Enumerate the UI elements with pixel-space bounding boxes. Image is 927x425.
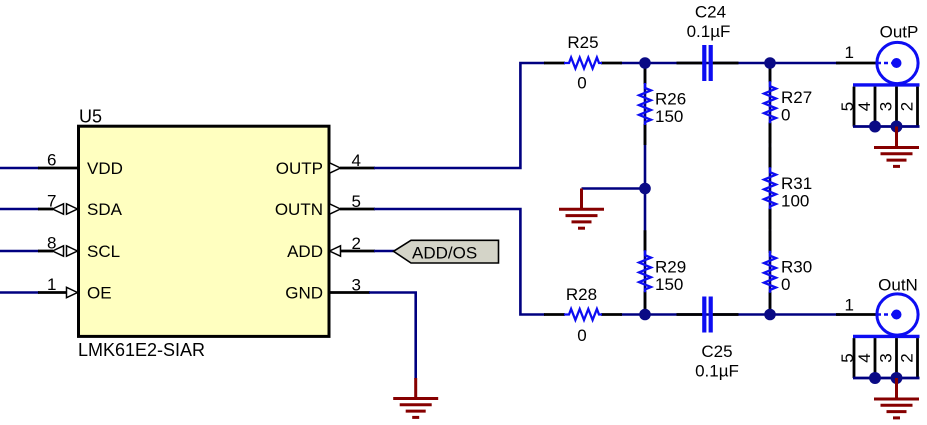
svg-text:2: 2 — [898, 353, 917, 362]
svg-text:OUTP: OUTP — [276, 159, 323, 178]
svg-text:R30: R30 — [781, 258, 812, 277]
svg-text:ADD/OS: ADD/OS — [412, 244, 477, 263]
svg-text:R31: R31 — [781, 174, 812, 193]
svg-text:4: 4 — [855, 102, 874, 111]
svg-text:0: 0 — [781, 106, 790, 125]
svg-text:VDD: VDD — [87, 159, 123, 178]
svg-text:1: 1 — [845, 296, 854, 315]
svg-text:0: 0 — [781, 275, 790, 294]
svg-text:SDA: SDA — [87, 200, 123, 219]
svg-text:LMK61E2-SIAR: LMK61E2-SIAR — [78, 340, 205, 360]
svg-text:2: 2 — [898, 102, 917, 111]
svg-text:1: 1 — [845, 43, 854, 62]
svg-text:100: 100 — [781, 192, 809, 211]
svg-text:OutP: OutP — [880, 23, 919, 42]
svg-text:0.1µF: 0.1µF — [695, 362, 739, 381]
svg-text:ADD: ADD — [287, 242, 323, 261]
svg-text:4: 4 — [855, 353, 874, 362]
svg-text:SCL: SCL — [87, 242, 120, 261]
svg-text:R28: R28 — [566, 285, 597, 304]
svg-text:150: 150 — [655, 275, 683, 294]
svg-text:OutN: OutN — [878, 276, 918, 295]
svg-text:OE: OE — [87, 284, 112, 303]
svg-text:3: 3 — [877, 353, 896, 362]
svg-text:R25: R25 — [567, 33, 598, 52]
svg-text:GND: GND — [285, 284, 323, 303]
svg-text:R26: R26 — [655, 90, 686, 109]
svg-text:R29: R29 — [655, 258, 686, 277]
svg-text:3: 3 — [877, 102, 896, 111]
svg-text:R27: R27 — [781, 88, 812, 107]
svg-text:0.1µF: 0.1µF — [687, 22, 731, 41]
svg-text:C24: C24 — [695, 3, 726, 22]
svg-text:C25: C25 — [701, 342, 732, 361]
svg-text:0: 0 — [577, 326, 586, 345]
svg-text:U5: U5 — [79, 107, 102, 127]
svg-text:150: 150 — [655, 107, 683, 126]
svg-text:OUTN: OUTN — [275, 200, 323, 219]
svg-text:0: 0 — [577, 74, 586, 93]
